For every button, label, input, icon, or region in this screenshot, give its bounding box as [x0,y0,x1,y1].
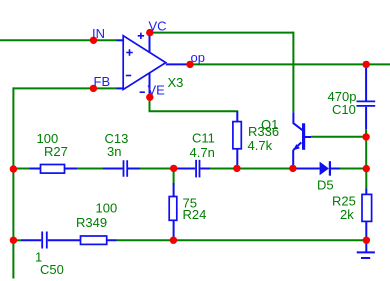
transistor Q1 emitter diagonal [294,142,302,150]
wire right rail C10 to base node [365,129,367,137]
ground stub [365,240,367,252]
svg-text:IN: IN [92,26,105,41]
op-amp X3 VC power pin [149,33,151,53]
junction dot R336 bottom row A [233,165,240,172]
node VC junction dot [146,29,153,36]
svg-text:FB: FB [94,74,111,89]
svg-text:C11: C11 [192,130,215,145]
capacitor C11 leads [174,168,210,170]
wire right rail diode node to R25 [365,169,367,189]
op-amp X3 plus marker at VC pin [138,33,144,39]
wire row B left segment [13,239,21,241]
capacitor C50 plates [42,232,47,249]
op-amp X3 output lead [166,63,190,65]
svg-text:VC: VC [149,19,167,34]
svg-text:R336: R336 [248,124,279,139]
transistor Q1 base bar [302,123,305,150]
junction dot node A row A [170,165,177,172]
capacitor C13 plates [124,160,128,177]
capacitor C10 top lead [365,64,367,100]
wire row A left segment [13,168,29,170]
capacitor C50 leads [21,239,56,241]
svg-text:R24: R24 [183,207,207,222]
svg-text:4.7n: 4.7n [190,145,215,160]
diode D5 anode lead [293,168,320,170]
op-amp X3 inverting input stub [117,87,124,89]
resistor R25 leads [365,189,367,241]
op-amp X3 minus marker at VE pin [140,91,145,93]
ground bar 1 [357,251,375,253]
capacitor C10 plates [357,101,376,106]
wire FB net horizontal [13,87,116,89]
svg-text:C10: C10 [332,102,356,117]
diode D5 triangle [320,162,329,176]
resistor R27 body [41,165,65,174]
wire op net horizontal [190,63,390,65]
svg-text:100: 100 [96,201,118,216]
svg-text:R349: R349 [76,215,107,230]
wire row A between R27 and C13 [77,168,103,170]
wire VE to R336 horizontal [149,110,239,112]
node op junction dot [186,61,193,68]
wire row A C11 to Q1 emitter node [210,168,293,170]
resistor R349 leads [56,239,117,241]
junction dot op right rail [363,61,370,68]
wire Q1 base to right rail [311,136,366,138]
svg-text:X3: X3 [168,75,184,90]
resistor R25 body [362,194,372,221]
transistor Q1 collector lead [293,112,302,130]
capacitor C13 leads [103,168,140,170]
node VE junction dot [146,94,153,101]
junction dot R25 bottom right rail [363,237,370,244]
resistor R24 body [169,197,177,221]
transistor Q1 emitter lead down [292,150,294,169]
wire row B R349 to right rail [117,239,367,241]
capacitor C10 bottom lead [365,107,367,129]
wire VE pin down [149,97,151,111]
op-amp X3 minus marker inside [126,75,131,77]
resistor R336 body [233,122,241,149]
wire row A C13 to node [140,168,174,170]
svg-text:R27: R27 [44,144,68,159]
diode D5 cathode lead [331,168,340,170]
junction dot Q1 emitter row A [289,165,296,172]
transistor Q1 emitter arrow [293,144,300,150]
svg-text:D5: D5 [317,178,334,193]
resistor R27 leads [30,168,78,170]
svg-text:C50: C50 [40,262,64,277]
wire VC to Q1 collector vertical [292,32,294,113]
junction dot base node right rail [362,133,369,140]
wire IN net horizontal [0,39,117,41]
wire VC net horizontal [150,32,294,34]
wire node A down to R24 [173,169,175,186]
capacitor C11 plates [196,160,199,178]
svg-text:op: op [191,50,205,65]
junction dot left rail row B [10,237,17,244]
svg-text:3n: 3n [107,144,121,159]
node IN junction dot [90,37,97,44]
diode D5 cathode bar [329,161,331,176]
wire row A diode to right rail [340,168,366,170]
resistor R336 leads [236,111,238,168]
junction dot left rail row A [10,165,17,172]
op-amp X3 noninverting input stub [117,39,124,41]
svg-text:2k: 2k [340,207,354,222]
svg-text:VE: VE [148,83,166,98]
transistor Q1 base lead [305,136,311,138]
op-amp X3 triangle [123,36,166,90]
wire right rail base node to diode node [365,137,367,169]
ground bar 2 [361,257,370,259]
node FB junction dot [90,85,97,92]
wire left rail vertical [12,87,14,278]
resistor R349 body [81,236,107,244]
op-amp X3 plus marker inside [126,49,132,55]
op-amp X3 VE power pin [149,73,151,98]
svg-text:4.7k: 4.7k [248,138,273,153]
junction dot R24 bottom row B [170,237,177,244]
resistor R24 leads [173,183,175,240]
junction dot diode node right rail [363,165,370,172]
